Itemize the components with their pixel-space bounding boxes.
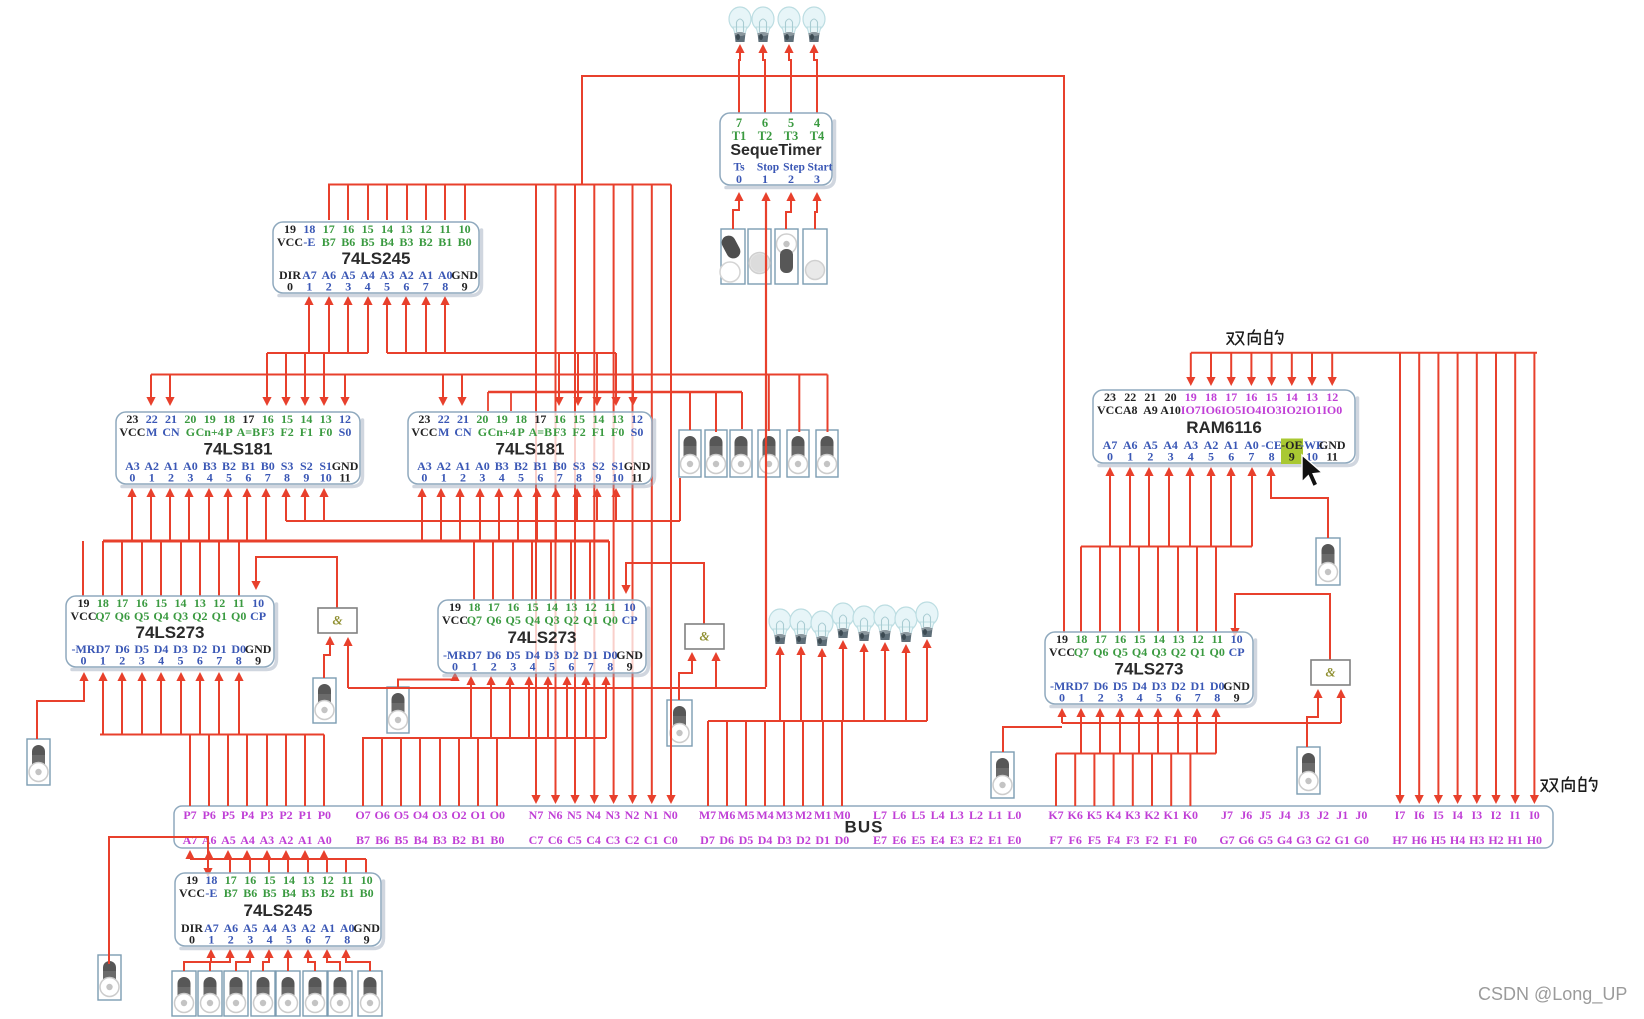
svg-text:Q4: Q4: [525, 613, 540, 627]
svg-text:0: 0: [81, 653, 87, 667]
wire 74LS273 U6 Q output riser: [512, 541, 514, 600]
wire drop to 74LS181 U2 F output: [266, 353, 268, 402]
svg-text:CP: CP: [622, 613, 638, 627]
74LS245 U1: [273, 222, 482, 296]
svg-text:K2: K2: [1144, 808, 1159, 822]
svg-text:P: P: [517, 425, 524, 439]
svg-text:O7: O7: [355, 808, 370, 822]
wire riser to 74LS181 U2 A/B input: [131, 492, 133, 541]
svg-text:Q0: Q0: [1210, 645, 1225, 659]
svg-text:H2: H2: [1488, 833, 1503, 847]
wire drop to RAM6116 IO pin: [1190, 353, 1192, 382]
switch SB4 (data input bit 4): [251, 971, 275, 1016]
wire riser to 74LS181 U2 A/B input: [208, 492, 210, 541]
svg-text:18: 18: [468, 600, 480, 614]
svg-text:P5: P5: [222, 808, 235, 822]
svg-text:8: 8: [1269, 449, 1275, 463]
svg-text:Q4: Q4: [153, 609, 168, 623]
wire riser to lamp: [779, 650, 781, 721]
wire 74LS245 U1 B pin riser: [347, 185, 349, 221]
wire drop to BUS I group: [1514, 353, 1516, 800]
wire drop to 74LS181 M/CN pin: [442, 375, 444, 403]
wire riser to RAM6116 address pin: [1109, 471, 1111, 547]
wire 74LS273 U6 Q output riser: [550, 541, 552, 600]
svg-text:P1: P1: [299, 808, 312, 822]
switch SB2 (data input bit 6): [198, 971, 222, 1016]
svg-text:CSDN @Long_UP: CSDN @Long_UP: [1478, 984, 1627, 1005]
wire riser to 74LS273 U6 D input: [509, 680, 511, 738]
wire net Stop vertical from SequeTimer pin1: [765, 196, 767, 687]
wire drop to BUS N group: [651, 185, 653, 801]
wire drop to 74LS181 S0 pin: [344, 375, 346, 403]
svg-text:4: 4: [267, 932, 273, 946]
svg-text:Q2: Q2: [1171, 645, 1186, 659]
svg-text:74LS245: 74LS245: [342, 249, 411, 268]
svg-text:N4: N4: [586, 808, 601, 822]
svg-text:C2: C2: [625, 833, 640, 847]
svg-text:5: 5: [286, 932, 292, 946]
wire drop to BUS I group: [1476, 353, 1478, 800]
wire riser to 74LS273 U7 D input: [1119, 712, 1121, 754]
wire riser to RAM6116 address pin: [1189, 471, 1191, 547]
wire riser to RAM6116 address pin: [1251, 471, 1253, 547]
wire 74LS273 U5 Q output riser: [199, 541, 201, 596]
wire drop to BUS K group: [1151, 754, 1153, 807]
svg-text:22: 22: [438, 412, 450, 426]
wire riser to U1 A input: [347, 300, 349, 353]
svg-text:74LS181: 74LS181: [496, 439, 565, 458]
svg-text:S0: S0: [339, 425, 352, 439]
svg-text:IO5: IO5: [1221, 403, 1241, 417]
svg-text:B2: B2: [419, 235, 433, 249]
wire riser to 74LS181 U2 A/B input: [188, 492, 190, 541]
svg-text:6: 6: [1228, 449, 1234, 463]
svg-text:CN: CN: [162, 425, 180, 439]
wire drop to 74LS245 U9 B pin: [287, 859, 289, 873]
svg-text:P7: P7: [183, 808, 196, 822]
wire net BUS A to U9 stair y859: [190, 858, 366, 860]
svg-text:RAM6116: RAM6116: [1186, 418, 1262, 437]
lamp T1 indicator: [729, 7, 751, 42]
svg-text:19: 19: [1185, 390, 1197, 404]
svg-text:2: 2: [168, 470, 174, 484]
svg-text:9: 9: [1289, 449, 1295, 463]
wire 74LS245 U1 B pin riser: [444, 185, 446, 221]
wire riser to lamp: [905, 648, 907, 721]
svg-text:15: 15: [281, 412, 293, 426]
svg-text:8: 8: [576, 470, 582, 484]
svg-text:1: 1: [208, 932, 214, 946]
text label bidirectional (bottom): [1541, 777, 1597, 792]
wire drop to 74LS181 U2 F output: [285, 353, 287, 402]
wire drop to 74LS181 U2 F output: [323, 353, 325, 402]
wire 74LS273 U5 Q output riser: [180, 541, 182, 596]
svg-text:B4: B4: [282, 886, 296, 900]
wire 74LS273 U6 Q output riser: [473, 541, 475, 600]
svg-text:7: 7: [557, 470, 563, 484]
svg-text:14: 14: [1153, 632, 1165, 646]
svg-text:6: 6: [1175, 690, 1181, 704]
svg-text:VCC: VCC: [1097, 403, 1123, 417]
svg-text:0: 0: [1107, 449, 1113, 463]
wire riser to 74LS181 U2 S pin: [304, 492, 306, 521]
wire drop to 74LS181 M/CN pin: [169, 375, 171, 403]
svg-text:3: 3: [139, 653, 145, 667]
wire riser to U1 A input: [444, 300, 446, 353]
svg-text:L2: L2: [969, 808, 983, 822]
wire 74LS273 U7 Q output riser: [1215, 547, 1217, 633]
wire drop to switch SM6: [827, 375, 829, 433]
wire net RAM address stair y546 from 74LS273 U7 Q: [1081, 546, 1252, 548]
svg-text:M4: M4: [756, 808, 773, 822]
wire SequeTimer T3 to lamp: [789, 50, 791, 113]
wire drop to 74LS181 S0 pin: [632, 375, 634, 403]
wire riser to 74LS181 U2 S pin: [285, 492, 287, 521]
wire riser to 74LS181 U3 A/B input: [479, 492, 481, 541]
svg-text:B3: B3: [399, 235, 413, 249]
wire riser to lamp: [842, 644, 844, 721]
wire 74LS273 U5 Q output riser: [218, 541, 220, 596]
svg-text:21: 21: [165, 412, 177, 426]
wire net register outputs stair y541: [103, 540, 609, 543]
svg-text:E0: E0: [1007, 833, 1021, 847]
svg-text:K6: K6: [1068, 808, 1083, 822]
74LS181 U3: [408, 412, 655, 487]
wire riser to 74LS273 U6 D input: [566, 680, 568, 738]
svg-text:M1: M1: [814, 808, 831, 822]
wire drop to 74LS245 U9 B pin: [229, 859, 231, 873]
svg-text:17: 17: [488, 600, 500, 614]
svg-text:C6: C6: [548, 833, 563, 847]
svg-text:CN: CN: [454, 425, 472, 439]
wire riser to RAM6116 address pin: [1129, 471, 1131, 547]
svg-text:I2: I2: [1491, 808, 1502, 822]
svg-text:1: 1: [762, 172, 768, 186]
AND gate U12: [1311, 660, 1350, 685]
svg-text:N5: N5: [567, 808, 582, 822]
wire drop to BUS O group: [496, 738, 498, 806]
svg-text:A9: A9: [1143, 403, 1158, 417]
svg-text:Q6: Q6: [115, 609, 130, 623]
wire drop into 74LS181 U3 pin20: [487, 392, 489, 411]
wire drop to switch SM2: [715, 392, 717, 432]
svg-text:G1: G1: [1335, 833, 1350, 847]
svg-text:VCC: VCC: [411, 425, 437, 439]
svg-text:B1: B1: [438, 235, 452, 249]
wire drop into 74LS181 U3 pin19: [510, 392, 512, 411]
wire switch SB7 to 74LS245 U9 A1: [327, 953, 340, 971]
svg-text:L3: L3: [950, 808, 964, 822]
wire riser to BUS A group: [285, 854, 287, 859]
74LS181 U2: [116, 412, 363, 487]
svg-text:L1: L1: [988, 808, 1002, 822]
wire drop to BUS O group: [381, 738, 383, 806]
svg-text:3: 3: [345, 279, 351, 293]
svg-text:VCC: VCC: [71, 609, 97, 623]
svg-text:5: 5: [226, 470, 232, 484]
svg-text:12: 12: [1326, 390, 1338, 404]
svg-text:18: 18: [97, 596, 109, 610]
svg-text:-E: -E: [303, 235, 315, 249]
wire switch S3 to SequeTimer Step: [786, 196, 791, 229]
wire riser to 74LS273 U6 D input: [490, 680, 492, 738]
switch S11 (AND U10 input): [313, 678, 336, 723]
wire 74LS273 U5 Q output riser: [121, 541, 123, 596]
svg-text:G3: G3: [1296, 833, 1311, 847]
svg-text:3: 3: [187, 470, 193, 484]
svg-text:14: 14: [1286, 390, 1298, 404]
wire net mode trunk y374: [151, 374, 828, 376]
svg-text:12: 12: [213, 596, 225, 610]
wire 74LS273 U7 Q output riser: [1177, 547, 1179, 633]
wire 74LS245 U1 B pin riser: [406, 185, 408, 221]
wire drop to BUS N group: [574, 185, 576, 801]
svg-text:J6: J6: [1240, 808, 1252, 822]
svg-text:B5: B5: [263, 886, 277, 900]
wire drop to BUS P group: [208, 735, 210, 807]
svg-text:Q1: Q1: [583, 613, 598, 627]
wire switch S1 to SequeTimer Ts: [733, 196, 739, 229]
wire drop to BUS I group: [1533, 353, 1535, 800]
svg-text:D7: D7: [700, 833, 715, 847]
svg-text:19: 19: [204, 412, 216, 426]
wire riser to BUS A group: [227, 854, 229, 859]
wire AND U12 left input from switch S17: [1307, 693, 1318, 747]
svg-text:E5: E5: [911, 833, 925, 847]
svg-text:I7: I7: [1395, 808, 1406, 822]
svg-text:9: 9: [462, 279, 468, 293]
wire riser to 74LS181 U3 A/B input: [517, 492, 519, 541]
svg-text:22: 22: [1124, 390, 1136, 404]
wire drop to BUS I group: [1495, 353, 1497, 800]
switch S15 (AND U11 input): [667, 700, 692, 746]
svg-text:J7: J7: [1221, 808, 1233, 822]
wire riser to 74LS181 U3 S pin: [615, 492, 617, 521]
svg-text:N6: N6: [548, 808, 563, 822]
wire riser to BUS A group: [246, 854, 248, 859]
svg-text:B6: B6: [375, 833, 389, 847]
wire drop to BUS O group: [400, 738, 402, 806]
switch SM1 (ALU mode row): [679, 430, 701, 477]
74LS273 U7: [1045, 632, 1256, 707]
svg-text:Cn+4: Cn+4: [488, 425, 516, 439]
wire drop to BUS M group: [707, 721, 709, 806]
svg-text:8: 8: [344, 932, 350, 946]
svg-text:7: 7: [1248, 449, 1254, 463]
svg-text:12: 12: [631, 412, 643, 426]
svg-text:6: 6: [568, 659, 574, 673]
wire SequeTimer T1 to lamp: [739, 50, 740, 113]
svg-text:G5: G5: [1258, 833, 1273, 847]
svg-text:O2: O2: [451, 808, 466, 822]
switch S12 (74LS273 U6 -MR): [387, 687, 409, 733]
svg-text:F2: F2: [280, 425, 293, 439]
svg-text:74LS181: 74LS181: [204, 439, 273, 458]
wire drop to BUS P group: [323, 735, 325, 807]
wire riser to U1 A input: [328, 300, 330, 353]
wire AND U12 right input from -MR net: [1340, 693, 1342, 723]
switch S3 (SequeTimer Step): [775, 229, 798, 284]
wire drop to BUS N group: [670, 185, 672, 801]
svg-text:M5: M5: [737, 808, 754, 822]
svg-text:1: 1: [441, 470, 447, 484]
wire AND U11 output to 74LS273 U6 CP: [626, 563, 704, 624]
svg-text:O4: O4: [413, 808, 428, 822]
svg-text:8: 8: [1214, 690, 1220, 704]
svg-text:6: 6: [537, 470, 543, 484]
svg-text:N3: N3: [605, 808, 620, 822]
svg-text:7: 7: [216, 653, 222, 667]
switch SB3 (data input bit 5): [224, 971, 248, 1016]
74LS245 U9: [175, 873, 384, 949]
svg-text:B6: B6: [243, 886, 257, 900]
wire riser to U1 A input: [425, 300, 427, 353]
BUS backbone: [174, 806, 1553, 848]
wire 74LS273 U6 Q output riser: [492, 541, 494, 600]
svg-text:T4: T4: [810, 129, 825, 143]
wire AND U10 right input from Stop net: [347, 641, 349, 688]
svg-text:0: 0: [452, 659, 458, 673]
svg-text:P2: P2: [279, 808, 292, 822]
svg-text:9: 9: [627, 659, 633, 673]
svg-text:13: 13: [612, 412, 624, 426]
svg-text:N2: N2: [625, 808, 640, 822]
svg-text:D1: D1: [815, 833, 830, 847]
wire riser to BUS A group: [266, 854, 268, 859]
wire drop to BUS K group: [1093, 754, 1095, 807]
svg-text:L4: L4: [931, 808, 945, 822]
svg-text:A8: A8: [1123, 403, 1138, 417]
wire drop to BUS N group: [593, 185, 595, 801]
svg-text:6: 6: [305, 932, 311, 946]
svg-text:Q5: Q5: [1113, 645, 1128, 659]
svg-text:B0: B0: [360, 886, 374, 900]
lamp M6 bus indicator: [790, 609, 812, 644]
wire drop to 74LS181 M/CN pin: [461, 375, 463, 403]
svg-text:14: 14: [283, 873, 295, 887]
svg-text:2: 2: [326, 279, 332, 293]
wire drop to RAM6116 IO pin: [1331, 353, 1333, 382]
svg-text:0: 0: [1059, 690, 1065, 704]
svg-text:H4: H4: [1450, 833, 1465, 847]
wire drop to BUS M group: [745, 721, 747, 806]
svg-text:15: 15: [155, 596, 167, 610]
SequeTimer U4: [720, 113, 835, 188]
svg-text:Q3: Q3: [1151, 645, 1166, 659]
svg-text:B0: B0: [458, 235, 472, 249]
svg-text:&: &: [332, 612, 342, 627]
wire riser to RAM6116 address pin: [1148, 471, 1150, 547]
svg-text:&: &: [1325, 664, 1335, 679]
switch S17 (AND U12 input): [1297, 747, 1320, 794]
wire drop to 74LS181 U3 F output: [577, 353, 579, 402]
svg-text:15: 15: [264, 873, 276, 887]
svg-text:6: 6: [403, 279, 409, 293]
svg-text:B0: B0: [490, 833, 504, 847]
svg-text:13: 13: [565, 600, 577, 614]
svg-text:L0: L0: [1007, 808, 1021, 822]
wire 74LS245 U1 B pin riser: [386, 185, 388, 221]
wire 74LS245 U1 B pin riser: [464, 185, 466, 221]
wire net Stop horizontal y688: [348, 687, 766, 689]
svg-text:16: 16: [244, 873, 256, 887]
svg-text:Q5: Q5: [134, 609, 149, 623]
svg-text:K4: K4: [1106, 808, 1121, 822]
svg-text:P0: P0: [318, 808, 331, 822]
wire drop to BUS I group: [1437, 353, 1439, 800]
switch S2 (SequeTimer Stop): [748, 229, 771, 284]
wire 74LS273 U5 Q output riser: [141, 541, 143, 596]
svg-text:7: 7: [423, 279, 429, 293]
svg-text:I1: I1: [1510, 808, 1521, 822]
wire 74LS273 U7 Q output riser: [1080, 547, 1082, 633]
svg-text:B1: B1: [340, 886, 354, 900]
wire drop to 74LS181 U3 F output: [596, 353, 598, 402]
svg-text:22: 22: [146, 412, 158, 426]
lamp M2 bus indicator: [874, 605, 896, 640]
svg-text:VCC: VCC: [1049, 645, 1075, 659]
svg-text:18: 18: [223, 412, 235, 426]
wire switch SB4 to 74LS245 U9 A4: [263, 953, 269, 971]
wire 74LS245 U1 B pin riser: [367, 185, 369, 221]
wire drop to BUS P group: [189, 735, 191, 807]
svg-text:H0: H0: [1527, 833, 1542, 847]
wire net U7 -MR horizontal y723: [1062, 722, 1341, 724]
text label bidirectional (top): [1227, 330, 1283, 345]
svg-text:I4: I4: [1452, 808, 1463, 822]
svg-text:D2: D2: [796, 833, 811, 847]
svg-text:15: 15: [362, 222, 374, 236]
svg-text:18: 18: [1205, 390, 1217, 404]
svg-text:19: 19: [78, 596, 90, 610]
svg-text:C3: C3: [605, 833, 620, 847]
svg-text:16: 16: [136, 596, 148, 610]
wire riser to 74LS181 U3 A/B input: [459, 492, 461, 541]
wire drop to BUS M group: [841, 721, 843, 806]
svg-text:3: 3: [1168, 449, 1174, 463]
svg-text:A6: A6: [202, 833, 217, 847]
wire 74LS273 U7 Q output riser: [1138, 547, 1140, 633]
svg-text:BUS: BUS: [845, 817, 884, 836]
svg-text:L6: L6: [892, 808, 906, 822]
wire drop to BUS K group: [1074, 754, 1076, 807]
svg-text:CP: CP: [250, 609, 266, 623]
svg-text:Q6: Q6: [1093, 645, 1108, 659]
svg-text:Stop: Stop: [757, 162, 779, 174]
svg-text:2: 2: [228, 932, 234, 946]
wire riser to lamp: [863, 647, 865, 721]
svg-text:J5: J5: [1259, 808, 1271, 822]
wire net S-select y521 from switch SM1 bottom: [286, 520, 680, 522]
svg-text:I3: I3: [1471, 808, 1482, 822]
svg-text:E4: E4: [931, 833, 945, 847]
svg-text:12: 12: [420, 222, 432, 236]
svg-text:19: 19: [496, 412, 508, 426]
wire drop to BUS P group: [304, 735, 306, 807]
wire drop to BUS N group: [632, 185, 634, 801]
svg-text:IO4: IO4: [1241, 403, 1261, 417]
svg-text:A7: A7: [183, 833, 198, 847]
svg-text:8: 8: [442, 279, 448, 293]
switch S14 (74LS245 U9 -E): [98, 955, 121, 1000]
svg-text:B4: B4: [380, 235, 394, 249]
svg-text:IO1: IO1: [1302, 403, 1322, 417]
svg-text:0: 0: [421, 470, 427, 484]
wire riser to 74LS273 U6 D input: [547, 680, 549, 738]
wire riser to RAM6116 address pin: [1168, 471, 1170, 547]
wire 74LS245 U1 B pin riser: [425, 185, 427, 221]
svg-text:N0: N0: [663, 808, 678, 822]
